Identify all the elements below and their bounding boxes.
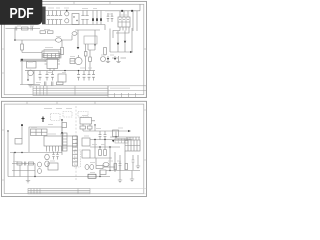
junction node C — [27, 79, 28, 80]
resistor R8 — [57, 82, 64, 85]
resistor R6 — [89, 57, 92, 62]
thermistor RT1 — [56, 38, 62, 42]
wire vert v2 — [99, 147, 101, 150]
capacitor C5 — [39, 71, 42, 81]
wire gnd rail — [20, 84, 40, 86]
resistor R10 — [80, 126, 86, 129]
title block page1 — [108, 86, 146, 98]
resistor R15 — [17, 162, 22, 165]
capacitor C17 — [56, 152, 59, 160]
wire mid left rail — [12, 170, 35, 172]
junction node K — [99, 176, 100, 177]
capacitor C19 — [119, 161, 122, 171]
resistor R20 — [84, 52, 87, 57]
wire vert v4 — [109, 147, 111, 158]
CN4 pin stubs — [127, 137, 139, 140]
capacitor CX4 — [59, 11, 62, 25]
section divider dashed — [75, 106, 77, 180]
common-mode choke LF1 — [65, 12, 69, 16]
wire lower mid — [15, 39, 56, 41]
page 2 zone tick top — [27, 101, 95, 104]
wire R4 top — [61, 40, 63, 48]
junction node L — [7, 130, 8, 131]
wire top rail cn4 — [110, 136, 140, 138]
component label smudges page1 — [17, 8, 127, 83]
resistor R4 — [61, 48, 64, 55]
page 1 sheet border inner — [4, 4, 144, 94]
ground GND4 — [136, 155, 140, 169]
junction node D — [64, 70, 65, 71]
electrolytic cap CE1 — [45, 154, 50, 160]
wire sec rail 1 — [90, 139, 132, 141]
junction node HV1 — [121, 10, 123, 12]
resistor R1 — [22, 27, 29, 30]
electrolytic cap CE4 — [38, 162, 42, 167]
wire bottom bus — [8, 176, 110, 178]
inductor L1 — [85, 165, 89, 170]
wire vertical left — [21, 60, 23, 85]
wire HV rail — [105, 4, 140, 30]
arrow output — [128, 130, 131, 132]
connector grid CN4 — [125, 140, 140, 151]
junction node A — [14, 39, 16, 41]
wire secondary rail — [25, 70, 95, 72]
wire left v2 — [13, 152, 15, 177]
wire under IC — [10, 152, 62, 154]
wire resistor drop — [22, 40, 42, 53]
revision table page1 — [33, 86, 108, 96]
regulator block VR1 — [58, 74, 66, 82]
capacitor C22 — [107, 13, 110, 22]
arrow net right — [130, 51, 133, 53]
note box dashed 1 — [51, 114, 61, 121]
junction node J — [34, 176, 35, 177]
capacitor C7 — [51, 71, 54, 81]
page 2 zone tick right — [144, 110, 147, 160]
connector CN1 mains input — [42, 7, 46, 25]
connector CN2 — [15, 139, 22, 145]
wire aux drop2 — [87, 44, 89, 50]
snubber outline box — [84, 36, 97, 44]
transistor Q3 — [101, 57, 106, 62]
page 1 sheet border outer — [2, 1, 147, 97]
base box B1 — [70, 59, 75, 64]
capacitor C15 — [104, 131, 107, 140]
ground GND2 — [106, 60, 110, 63]
capacitor C11 — [83, 71, 86, 81]
wire vert down2 — [119, 155, 121, 177]
capacitor C6 — [46, 71, 49, 81]
ground GND7 — [26, 177, 30, 184]
capacitor C16 — [52, 152, 55, 160]
capacitor C3 — [15, 27, 17, 31]
note box dashed 2 — [63, 112, 72, 118]
page 1 zone tick top — [38, 1, 110, 4]
bridge rectifier BD1 — [72, 14, 79, 25]
revision table page2 — [28, 189, 146, 194]
wire vert v6 — [109, 158, 111, 171]
junction dots rails — [94, 139, 95, 140]
transistor Q2 — [75, 57, 82, 64]
wire right drop — [131, 28, 133, 52]
resistor R14 — [96, 166, 103, 169]
pin header table J1 — [43, 54, 60, 58]
capacitor C23 — [111, 13, 114, 22]
resistor R16 — [29, 162, 34, 165]
resistor R13 — [104, 150, 107, 156]
diode D1 — [92, 11, 94, 25]
resistor R3 — [21, 44, 24, 50]
connector strip CN3 — [73, 136, 78, 166]
capacitor C18 — [132, 155, 135, 170]
wire aux drop1 — [77, 30, 79, 47]
inductor L2 — [90, 165, 94, 170]
node marker G — [21, 124, 23, 126]
junction node E — [78, 70, 79, 71]
junction dot choke — [66, 10, 67, 11]
wire drop b1 — [19, 165, 21, 177]
controller U3 — [47, 59, 58, 69]
feedback block FB1 — [80, 118, 92, 125]
wire AC return mid — [6, 28, 41, 30]
capacitor C4 — [31, 27, 33, 31]
diode D8 — [114, 56, 116, 58]
diode D3 — [100, 11, 102, 25]
wire sec rail 3 — [90, 157, 112, 159]
wire aux rail — [75, 29, 100, 31]
capacitor C10 — [77, 71, 80, 81]
page 2 zone tick left — [2, 130, 5, 180]
PDF badge — [0, 0, 42, 25]
small box U5 — [62, 123, 67, 128]
svg-text:PDF: PDF — [10, 5, 34, 22]
resistor R2 — [48, 31, 54, 34]
page 1 zone tick left — [2, 49, 5, 73]
fuse F1 — [40, 31, 46, 34]
transformer T1 winding grid — [31, 129, 48, 136]
standby box SB1 — [48, 163, 58, 170]
wire vert v3 — [104, 140, 106, 150]
junction node I — [115, 136, 116, 137]
junction node H — [94, 124, 95, 125]
snubber box S2 — [82, 150, 90, 158]
optocoupler U2 — [27, 62, 37, 69]
bus highlight bar — [20, 59, 46, 62]
wire U1 pin bend 1 — [113, 31, 120, 39]
capacitor C21 — [24, 162, 25, 166]
wire upper small — [12, 163, 35, 165]
wire AC neutral bus — [42, 24, 105, 26]
capacitor CX3 — [55, 11, 58, 25]
resistor R17 inline — [88, 174, 96, 178]
wire drop b2 — [27, 165, 29, 177]
resistor R18 — [114, 164, 117, 170]
regulator U6 — [113, 130, 119, 137]
wire to relay — [62, 35, 73, 40]
polarity mark — [42, 117, 45, 123]
module outline — [29, 127, 62, 152]
component label smudges page2 — [13, 109, 132, 173]
U4 pin stubs — [47, 146, 62, 152]
junction node N — [21, 152, 22, 153]
resistor R12 — [99, 150, 102, 156]
transistor Q1 — [28, 70, 34, 76]
ground GND6 — [130, 171, 134, 182]
wire aux h2 — [88, 45, 95, 50]
diode D5 — [117, 31, 119, 52]
node marker B — [21, 59, 23, 61]
capacitor CX2 — [51, 11, 54, 25]
page 2 sheet border inner — [4, 104, 144, 194]
wire U1 pin bend 2 — [116, 31, 129, 34]
wire drop right1 — [132, 11, 134, 31]
main IC U4 — [44, 136, 77, 146]
wire vert down1 — [114, 152, 116, 172]
capacitor C2 — [85, 11, 88, 25]
capacitor C1 — [81, 11, 84, 25]
PWM controller U1 — [118, 17, 130, 27]
U1 pin stubs — [120, 11, 129, 31]
capacitor CX1 — [47, 11, 50, 25]
capacitor C14 — [99, 131, 102, 140]
wire vert v1 — [94, 140, 96, 159]
diode D6 — [124, 31, 126, 53]
shield box dashed — [75, 150, 81, 167]
page 1 zone tick right — [144, 48, 147, 50]
pin block PB1 — [63, 133, 67, 151]
capacitor C9 — [51, 82, 53, 86]
junction node F1 — [94, 44, 95, 45]
wire drop k — [99, 170, 101, 177]
lamp LP1 — [72, 32, 77, 36]
wire drop right2 — [136, 11, 138, 31]
wire output rail — [92, 130, 128, 132]
wire aux drop3 — [94, 30, 96, 45]
ground GND3 — [116, 56, 120, 63]
diode D2 — [96, 11, 98, 25]
junction dot F — [61, 119, 63, 121]
wire U1 left drop — [110, 29, 132, 53]
wire drop b3 — [34, 164, 36, 177]
ground GND1 — [28, 85, 34, 88]
wire pb1 feed — [61, 120, 63, 155]
page 2 sheet border outer — [2, 101, 147, 196]
junction node M — [14, 152, 15, 153]
ground GND5 — [118, 177, 122, 183]
electrolytic cap CE5 — [38, 169, 42, 174]
U3 pin stubs — [45, 61, 61, 71]
wire sec rail 2 — [90, 146, 120, 148]
transistor Q4 — [77, 47, 80, 49]
capacitor C8 — [44, 82, 46, 86]
wire CN drop — [21, 125, 23, 139]
wire out rail — [106, 170, 140, 172]
wire left v1 — [7, 131, 9, 177]
pin grid J2 — [115, 139, 128, 144]
electrolytic cap CE2 — [45, 161, 50, 167]
wire vert down3 — [124, 151, 126, 170]
resistor R9 — [104, 48, 107, 55]
small box U7 — [100, 170, 106, 175]
varistor RV1 — [103, 163, 109, 167]
relay K1 — [42, 51, 59, 60]
junction node HV2 — [131, 10, 133, 12]
snubber box S1 — [82, 138, 90, 146]
capacitor C12 — [88, 71, 91, 81]
note box dashed 3 — [78, 112, 88, 118]
wire L out — [103, 166, 115, 168]
wire fb stubs — [83, 121, 95, 131]
wire AC line bus — [42, 10, 105, 12]
junction node O — [109, 170, 110, 171]
wire vert w1 — [115, 132, 117, 138]
resistor R19 — [125, 164, 128, 170]
resistor R11 — [88, 126, 93, 129]
wire vert v5 — [95, 158, 97, 165]
wire node drop — [14, 29, 16, 41]
capacitor C13 — [92, 71, 95, 81]
wire Q1 — [28, 70, 34, 85]
diode D7 — [107, 56, 109, 58]
diode D9 — [112, 140, 114, 142]
net label text marks — [112, 57, 126, 59]
